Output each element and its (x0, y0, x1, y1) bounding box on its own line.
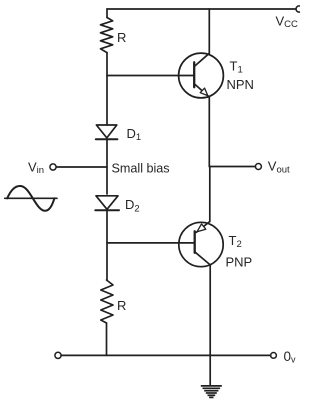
wire T1 base (107, 75, 194, 77)
terminal Vcc (296, 6, 302, 12)
svg-text:D1: D1 (127, 126, 142, 143)
diode D1 (96, 125, 118, 139)
resistor R2 (lower R) (101, 280, 113, 323)
transistor T1 (NPN) (179, 53, 224, 98)
wire Vout node to T2 emitter (209, 167, 211, 222)
svg-text:D2: D2 (125, 197, 140, 214)
resistor R1 (upper R) (101, 18, 113, 53)
wire R2 to bottom rail (106, 323, 108, 355)
wire Vout lead (209, 166, 255, 168)
wire R1 to D1 (junction with T1 base at y=75.5) (106, 53, 108, 125)
wire Vin lead (56, 166, 107, 168)
wire D1 to Vin node (106, 139, 108, 194)
wire D2 to R2 (junction with T2 base at y=243) (106, 210, 108, 280)
svg-text:R: R (117, 298, 126, 313)
terminal bottom left (55, 352, 61, 358)
terminal 0v (271, 353, 277, 359)
diode D2 (95, 196, 119, 210)
svg-text:NPN: NPN (227, 77, 254, 92)
svg-text:VCC: VCC (276, 14, 299, 31)
wire Vcc top rail (107, 8, 296, 10)
wire T1 collector to top rail (208, 9, 210, 53)
svg-text:R: R (117, 30, 126, 45)
wire T2 base (107, 242, 195, 244)
svg-text:Small bias: Small bias (112, 162, 170, 176)
svg-text:T2: T2 (229, 233, 242, 250)
terminal Vout (255, 164, 261, 170)
svg-text:Vin: Vin (28, 159, 44, 176)
terminal Vin (50, 164, 56, 170)
svg-text:PNP: PNP (226, 255, 253, 270)
source sine wave input (5, 186, 57, 211)
wire bottom rail (61, 354, 270, 356)
svg-text:0v: 0v (284, 349, 297, 365)
svg-text:T1: T1 (230, 59, 243, 76)
transistor T2 (PNP) (179, 222, 223, 267)
ground (201, 386, 222, 398)
wire top rail to R (upper) (106, 9, 108, 18)
wire T2 collector to ground (209, 265, 211, 386)
wire T1 emitter to Vout node (208, 97, 210, 167)
svg-text:Vout: Vout (268, 159, 290, 176)
